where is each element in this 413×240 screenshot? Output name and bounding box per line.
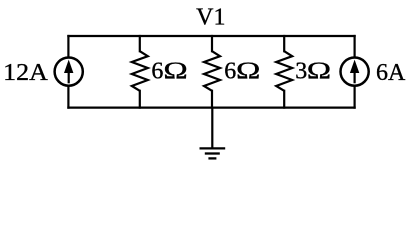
wire R1 bottom lead xyxy=(139,91,141,108)
wire right source top lead xyxy=(354,36,356,57)
svg-text:6A: 6A xyxy=(376,60,406,86)
svg-text:3: 3 xyxy=(295,59,307,85)
svg-text:Ω: Ω xyxy=(163,59,187,85)
label 6Ω (R2) xyxy=(224,59,260,85)
wire right source bottom lead xyxy=(354,86,356,107)
wire ground stub xyxy=(211,108,213,148)
resistor R2 zigzag xyxy=(204,51,220,91)
svg-text:Ω: Ω xyxy=(236,59,260,85)
wire left source bottom lead xyxy=(67,86,69,107)
wire R3 bottom lead xyxy=(283,91,285,108)
svg-text:Ω: Ω xyxy=(307,59,331,85)
svg-text:6: 6 xyxy=(151,59,163,85)
wire R2 top lead xyxy=(211,36,213,51)
wire top bus xyxy=(68,35,354,37)
ground xyxy=(200,148,226,158)
label 3Ω (R3) xyxy=(295,59,331,85)
resistor R1 zigzag xyxy=(132,51,148,91)
svg-text:V1: V1 xyxy=(196,5,225,31)
label 6Ω (R1) xyxy=(151,59,187,85)
wire R2 bottom lead xyxy=(211,91,213,108)
current source I2 6A (right) xyxy=(341,58,369,86)
wire left source top lead xyxy=(67,36,69,57)
current source I1 12A (left) xyxy=(55,58,83,86)
wire R3 top lead xyxy=(283,36,285,51)
resistor R3 zigzag xyxy=(276,51,292,91)
wire bottom bus xyxy=(68,106,354,108)
svg-text:12A: 12A xyxy=(3,60,48,86)
wire R1 top lead xyxy=(139,36,141,51)
svg-text:6: 6 xyxy=(224,59,236,85)
